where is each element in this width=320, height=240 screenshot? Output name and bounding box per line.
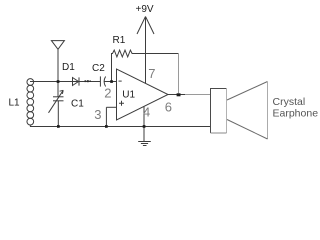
svg-text:C1: C1 [71, 98, 84, 109]
svg-text:6: 6 [165, 99, 172, 114]
svg-text:U1: U1 [122, 90, 135, 101]
svg-text:L1: L1 [9, 98, 21, 109]
svg-text:+9V: +9V [136, 4, 154, 15]
svg-text:2: 2 [104, 85, 111, 100]
svg-text:R1: R1 [113, 35, 126, 46]
svg-text:C2: C2 [92, 63, 105, 74]
svg-text:Earphone: Earphone [273, 107, 319, 119]
svg-text:7: 7 [148, 66, 155, 81]
svg-text:4: 4 [143, 105, 150, 120]
svg-text:Crystal: Crystal [273, 96, 306, 108]
svg-text:3: 3 [94, 107, 101, 122]
svg-text:D1: D1 [62, 62, 75, 73]
